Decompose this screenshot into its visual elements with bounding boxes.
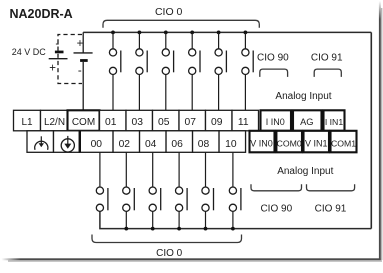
label 24 V DC: [12, 47, 47, 57]
battery B2 alternate polarity (dashed option): [49, 35, 82, 84]
terminal AG: [293, 110, 322, 131]
terminal 11: [232, 110, 259, 131]
svg-text:AG: AG: [300, 117, 313, 127]
terminal V IN0: [250, 131, 275, 153]
svg-text:07: 07: [185, 117, 197, 128]
terminal 04: [140, 131, 167, 153]
svg-text:CIO 0: CIO 0: [155, 6, 183, 18]
switch SW05: [162, 31, 173, 111]
terminal 02: [113, 131, 140, 153]
battery B1 24VDC (solid polarity): [74, 32, 93, 76]
terminal L1: [14, 110, 41, 131]
label CIO 91 (bottom): [315, 204, 347, 215]
svg-text:+: +: [49, 63, 56, 75]
switch SW08: [202, 152, 214, 230]
switch SW06: [176, 152, 188, 230]
terminal COM1: [331, 131, 357, 153]
svg-text:I IN0: I IN0: [266, 117, 285, 127]
svg-text:10: 10: [225, 139, 237, 150]
svg-text:08: 08: [198, 139, 210, 150]
svg-text:CIO 90: CIO 90: [257, 52, 289, 63]
svg-text:L2/N: L2/N: [44, 117, 65, 128]
label Analog Input (top): [275, 91, 331, 102]
terminal 05: [153, 110, 180, 131]
switch SW03: [136, 31, 147, 111]
svg-text:NA20DR-A: NA20DR-A: [10, 7, 73, 21]
terminal L2/N: [41, 110, 68, 131]
terminal protective earth: [54, 131, 80, 153]
svg-text:05: 05: [158, 117, 170, 128]
svg-text:03: 03: [132, 117, 144, 128]
svg-text:COM1: COM1: [331, 139, 356, 149]
brace CIO 90 bottom: [251, 184, 302, 191]
terminal 10: [219, 131, 246, 153]
switch SW04: [149, 152, 161, 230]
label CIO 90 (bottom): [260, 204, 292, 215]
label CIO 91 (top): [311, 52, 343, 63]
svg-text:COM0: COM0: [277, 139, 302, 149]
switch SW11: [242, 31, 253, 111]
svg-text:09: 09: [211, 117, 223, 128]
svg-text:CIO 91: CIO 91: [311, 52, 343, 63]
svg-text:-: -: [55, 38, 59, 50]
terminal functional ground: [27, 131, 54, 153]
label CIO 0 (top): [155, 6, 183, 18]
switch SW07: [189, 31, 200, 111]
switch SW01: [109, 31, 120, 111]
svg-text:CIO 0: CIO 0: [156, 248, 183, 259]
terminal 03: [126, 110, 153, 131]
svg-text:Analog Input: Analog Input: [277, 166, 333, 177]
label Analog Input (bottom): [277, 166, 333, 177]
wire: bottom return bus: [100, 211, 371, 228]
terminal 09: [206, 110, 233, 131]
svg-text:V IN1: V IN1: [305, 139, 328, 149]
terminal 06: [166, 131, 193, 153]
terminal V IN1: [304, 131, 330, 153]
wire: top supply bus: [83, 31, 371, 33]
svg-text:COM: COM: [72, 117, 95, 128]
svg-text:+: +: [77, 38, 84, 50]
svg-text:CIO 90: CIO 90: [260, 204, 292, 215]
svg-text:24 V DC: 24 V DC: [12, 47, 47, 57]
terminal I IN0: [261, 110, 292, 131]
terminal COM0: [276, 131, 302, 153]
terminal 07: [179, 110, 206, 131]
svg-text:L1: L1: [21, 117, 33, 128]
svg-text:Analog Input: Analog Input: [275, 91, 331, 102]
svg-text:V IN0: V IN0: [250, 139, 273, 149]
svg-text:I IN1: I IN1: [325, 117, 344, 127]
label CIO 0 (bottom): [156, 248, 183, 259]
svg-text:00: 00: [91, 139, 103, 150]
label CIO 90 (top): [257, 52, 289, 63]
svg-text:-: -: [78, 65, 82, 77]
terminal COM: [68, 110, 100, 131]
switch SW10: [229, 152, 241, 230]
wire: right side of supply loop: [370, 32, 372, 228]
brace CIO 91 top: [314, 69, 341, 77]
brace CIO 0 top (groups input terminals 01-11): [103, 20, 259, 27]
switch SW09: [215, 31, 226, 111]
terminal 00: [80, 131, 114, 153]
terminal 01: [100, 110, 127, 131]
terminal 08: [193, 131, 220, 153]
svg-text:11: 11: [238, 117, 249, 128]
switch SW00: [96, 152, 108, 211]
svg-text:04: 04: [145, 139, 157, 150]
svg-text:CIO 91: CIO 91: [315, 204, 347, 215]
brace CIO 90 top: [260, 69, 288, 77]
brace CIO 0 bottom (groups output terminals 00-10): [92, 235, 242, 243]
wire: battery to COM terminal: [82, 62, 84, 110]
title NA20DR-A: [10, 7, 73, 21]
svg-text:01: 01: [105, 117, 117, 128]
terminal I IN1: [324, 110, 345, 131]
svg-text:06: 06: [171, 139, 183, 150]
brace CIO 91 bottom: [307, 184, 355, 191]
svg-text:02: 02: [119, 139, 131, 150]
switch SW02: [123, 152, 135, 230]
